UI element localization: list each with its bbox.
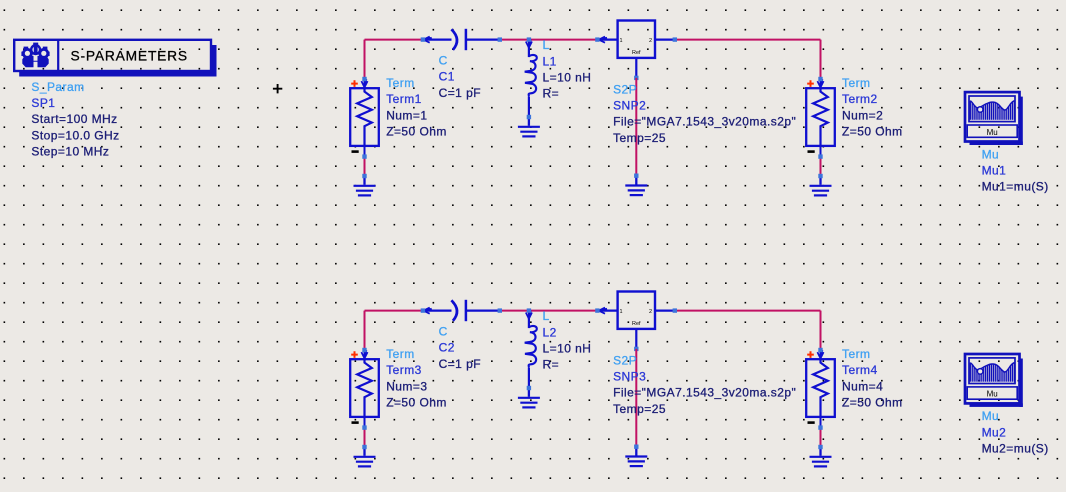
svg-text:Mu1: Mu1 — [982, 164, 1007, 178]
terminal Term2 — [806, 79, 835, 157]
junction — [634, 347, 638, 351]
svg-text:C: C — [439, 325, 448, 339]
svg-text:Mu2=mu(S): Mu2=mu(S) — [982, 442, 1049, 456]
svg-text:Step=10 MHz: Step=10 MHz — [31, 145, 109, 159]
svg-text:C=1 pF: C=1 pF — [439, 357, 481, 371]
junction — [595, 37, 599, 41]
wire — [820, 40, 822, 79]
svg-text:Mu2: Mu2 — [982, 425, 1007, 439]
svg-text:C: C — [439, 54, 448, 68]
junction — [818, 77, 822, 81]
svg-text:Ref: Ref — [632, 321, 641, 327]
junction — [498, 308, 502, 312]
svg-text:Stop=10.0 GHz: Stop=10.0 GHz — [31, 128, 119, 142]
svg-text:C=1 pF: C=1 pF — [439, 86, 481, 100]
simulation controller S-PARAMETERS box — [14, 40, 216, 77]
svg-text:L=10 nH: L=10 nH — [543, 71, 592, 85]
junction — [527, 37, 531, 41]
wire — [820, 428, 822, 447]
capacitor C1 — [423, 29, 499, 50]
wire main horizontal left — [365, 39, 423, 41]
ground below Term1 — [354, 176, 376, 195]
svg-text:SNP3: SNP3 — [613, 370, 646, 384]
measurement probe Mu1 icon — [965, 92, 1023, 145]
svg-text:C2: C2 — [439, 341, 455, 355]
junction — [362, 445, 366, 449]
inductor L1 — [525, 40, 537, 118]
svg-text:Term: Term — [842, 347, 870, 361]
node origin cross — [273, 84, 282, 93]
svg-text:Z=50 Ohm: Z=50 Ohm — [842, 396, 903, 410]
junction — [362, 77, 366, 81]
gear icon — [21, 43, 49, 68]
svg-text:Term1: Term1 — [386, 92, 422, 106]
svg-text:Term: Term — [386, 347, 414, 361]
2-port S-parameter file block SNP2 (U) — [597, 21, 674, 78]
wire — [364, 40, 366, 79]
svg-text:Mu: Mu — [987, 390, 998, 399]
wire — [364, 157, 366, 176]
junction — [818, 425, 822, 429]
svg-text:Temp=25: Temp=25 — [613, 131, 666, 145]
capacitor C2 — [423, 300, 499, 321]
junction — [498, 37, 502, 41]
wire — [364, 428, 366, 447]
svg-text:2: 2 — [649, 38, 652, 44]
junction — [527, 308, 531, 312]
junction — [634, 76, 638, 80]
svg-text:R=: R= — [543, 87, 560, 101]
svg-text:File="MGA7.1543_3v20ma.s2p": File="MGA7.1543_3v20ma.s2p" — [613, 115, 796, 129]
svg-text:Z=50 Ohm: Z=50 Ohm — [386, 125, 447, 139]
svg-text:1: 1 — [620, 38, 623, 44]
measurement probe Mu2 icon — [965, 354, 1023, 407]
junction — [634, 174, 638, 178]
junction — [362, 174, 366, 178]
svg-text:S2P: S2P — [613, 353, 637, 367]
junction — [527, 386, 531, 390]
svg-text:L2: L2 — [543, 325, 557, 339]
svg-text:Term2: Term2 — [842, 92, 878, 106]
wire main horizontal left — [365, 310, 423, 312]
svg-text:L: L — [543, 309, 550, 323]
junction — [818, 154, 822, 158]
terminal Term1 — [350, 79, 379, 157]
svg-text:Start=100 MHz: Start=100 MHz — [31, 112, 117, 126]
wire main horizontal middle — [500, 39, 597, 41]
svg-text:Mu: Mu — [982, 147, 1000, 161]
junction — [818, 445, 822, 449]
svg-text:SNP2: SNP2 — [613, 99, 646, 113]
svg-text:Mu: Mu — [987, 128, 998, 137]
ground below L1 — [518, 117, 540, 136]
svg-text:S_Param: S_Param — [31, 80, 84, 94]
wire — [820, 311, 822, 350]
svg-text:2: 2 — [649, 309, 652, 315]
svg-text:SP1: SP1 — [31, 96, 55, 110]
svg-text:Temp=25: Temp=25 — [613, 402, 666, 416]
ground below Term2 — [810, 176, 832, 195]
junction — [362, 348, 366, 352]
ground below SNP3 — [625, 447, 647, 466]
svg-text:Term: Term — [386, 76, 414, 90]
svg-text:Num=3: Num=3 — [386, 379, 427, 393]
wire — [820, 157, 822, 176]
svg-text:Term3: Term3 — [386, 363, 422, 377]
junction — [818, 174, 822, 178]
junction — [595, 308, 599, 312]
junction — [362, 425, 366, 429]
junction — [362, 154, 366, 158]
junction — [673, 37, 677, 41]
svg-text:Num=2: Num=2 — [842, 108, 883, 122]
svg-text:1: 1 — [620, 309, 623, 315]
ground below SNP2 — [625, 176, 647, 195]
junction — [634, 445, 638, 449]
svg-text:R=: R= — [543, 358, 560, 372]
junction — [818, 348, 822, 352]
svg-text:Num=4: Num=4 — [842, 379, 883, 393]
svg-text:C1: C1 — [439, 70, 455, 84]
terminal Term4 — [806, 350, 835, 428]
svg-text:File="MGA7.1543_3v20ma.s2p": File="MGA7.1543_3v20ma.s2p" — [613, 386, 796, 400]
junction — [421, 37, 425, 41]
wire — [364, 311, 366, 350]
svg-text:Mu1=mu(S): Mu1=mu(S) — [982, 180, 1049, 194]
svg-text:Z=50 Ohm: Z=50 Ohm — [842, 125, 903, 139]
wire main horizontal right — [675, 39, 821, 41]
svg-text:Term: Term — [842, 76, 870, 90]
svg-text:L: L — [543, 38, 550, 52]
junction — [527, 115, 531, 119]
svg-text:L1: L1 — [543, 54, 557, 68]
wire — [635, 78, 637, 176]
ground below Term3 — [354, 447, 376, 466]
svg-text:Term4: Term4 — [842, 363, 878, 377]
svg-text:Ref: Ref — [632, 50, 641, 56]
svg-text:Z=50 Ohm: Z=50 Ohm — [386, 396, 447, 410]
svg-text:S-PARAMETERS: S-PARAMETERS — [71, 48, 188, 63]
inductor L2 — [525, 311, 537, 389]
svg-text:Mu: Mu — [982, 409, 1000, 423]
wire — [635, 349, 637, 447]
svg-text:S2P: S2P — [613, 82, 637, 96]
terminal Term3 — [350, 350, 379, 428]
svg-text:Num=1: Num=1 — [386, 108, 427, 122]
wire main horizontal right — [675, 310, 821, 312]
junction — [421, 308, 425, 312]
junction — [673, 308, 677, 312]
ground below Term4 — [810, 447, 832, 466]
svg-text:L=10 nH: L=10 nH — [543, 342, 592, 356]
ground below L2 — [518, 388, 540, 407]
wire main horizontal middle — [500, 310, 597, 312]
2-port S-parameter file block SNP3 (U) — [597, 292, 674, 349]
